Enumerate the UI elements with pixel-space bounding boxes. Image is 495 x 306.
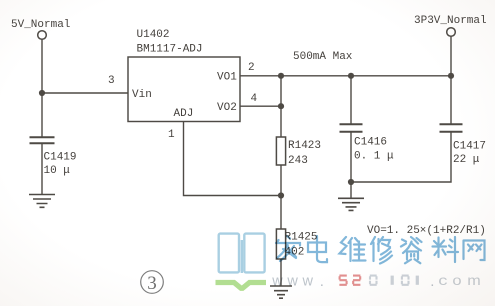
label U1402 — [137, 29, 170, 41]
svg-text:o: o — [452, 273, 461, 288]
pin label Vin — [132, 89, 152, 101]
node junction VO1/3P3V — [448, 73, 454, 79]
label 3P3V_Normal — [414, 15, 487, 27]
svg-text:m: m — [467, 273, 481, 288]
value 402 — [285, 246, 305, 258]
wire 5V vertical — [41, 39, 43, 137]
resistor R1423 — [276, 137, 285, 165]
node junction 5V/Vin — [39, 90, 45, 96]
pin number 1 — [168, 129, 175, 141]
node 5V_Normal terminal — [38, 31, 47, 40]
pin label ADJ — [174, 108, 194, 120]
label C1417 — [453, 140, 486, 152]
pin number 4 — [251, 93, 258, 105]
resistor R1425 — [276, 229, 285, 259]
value 0.1u — [354, 150, 394, 162]
capacitor C1417 — [440, 124, 463, 132]
watermark book underline swoosh — [216, 283, 267, 289]
label R1423 — [288, 140, 321, 152]
node junction VO1/C1416 — [348, 73, 354, 79]
label C1416 — [354, 137, 387, 149]
label formula VO=1.25x(1+R2/R1) — [367, 225, 486, 237]
ground C1416 — [338, 182, 364, 210]
wire R1423 bottom — [280, 165, 282, 229]
svg-text:c: c — [438, 273, 448, 288]
ground C1419 — [29, 195, 55, 208]
svg-text:www: www — [271, 274, 317, 290]
value 10u — [44, 165, 71, 177]
value 243 — [288, 155, 308, 167]
wire C1416 vertical — [350, 76, 352, 124]
svg-text:.: . — [320, 273, 324, 290]
node junction VO1/R1423 — [278, 73, 284, 79]
label 5V_Normal — [11, 19, 70, 31]
wire VO1 rail — [240, 75, 451, 77]
wire R1423 top — [280, 76, 282, 137]
node junction VO2/R1423 — [278, 103, 284, 109]
wire bottom rail C1417 — [351, 132, 451, 182]
pin number 2 — [248, 62, 255, 74]
value 22u — [453, 154, 480, 166]
node junction C1416/gnd — [348, 179, 354, 185]
capacitor C1419 — [30, 137, 55, 194]
watermark digits 520101 seven-segment — [339, 276, 417, 285]
label C1419 — [44, 151, 77, 163]
label R1425 — [285, 232, 318, 244]
wire ADJ pin loop — [184, 122, 282, 196]
node 3P3V_Normal terminal — [447, 28, 456, 37]
label BM1117-ADJ — [137, 43, 203, 55]
op-amp U1402 regulator box — [128, 57, 240, 122]
node schematic sheet number 3 — [141, 271, 164, 294]
wire R1425 bottom — [280, 259, 282, 286]
wire Vin horizontal — [42, 92, 128, 94]
wire VO2 stub — [240, 105, 281, 107]
watermark url www — [271, 273, 481, 290]
label 500mA Max — [293, 51, 353, 63]
pin label VO1 — [217, 72, 237, 84]
pin label VO2 — [217, 102, 237, 114]
watermark Chinese characters placeholder — [276, 236, 485, 264]
pin number 3 — [108, 75, 115, 87]
node junction ADJ/R1425 — [278, 192, 284, 198]
svg-text:.: . — [430, 273, 434, 290]
capacitor C1416 — [340, 124, 363, 182]
ground R1425 — [270, 286, 292, 298]
wire 3P3V vertical — [450, 36, 452, 124]
watermark book logo — [219, 234, 265, 273]
